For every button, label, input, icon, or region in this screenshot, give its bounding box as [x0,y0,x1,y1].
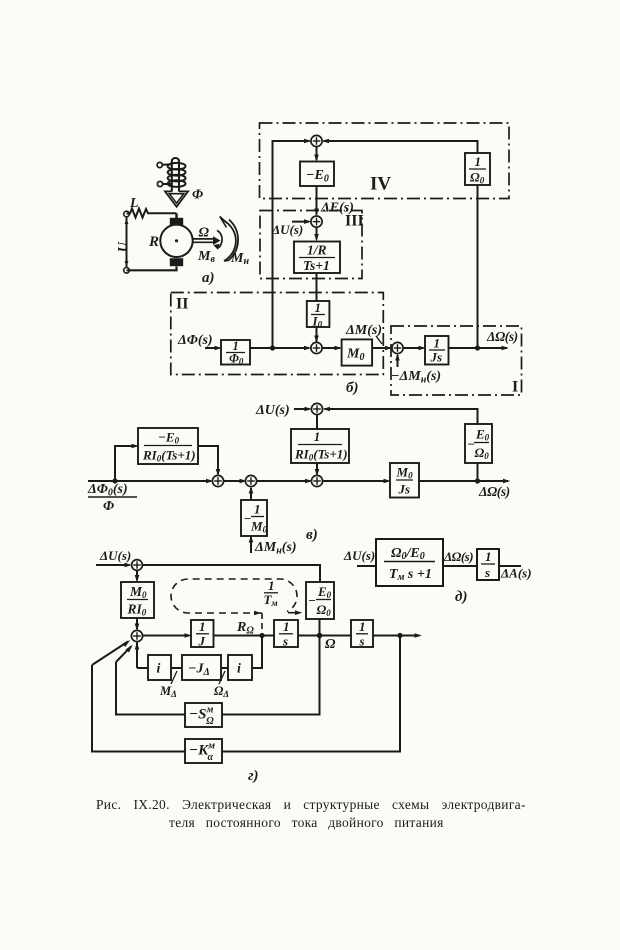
svg-text:ΔE(s): ΔE(s) [320,201,354,216]
svg-text:s: s [359,634,365,649]
summer V4 [311,403,322,414]
wire: 1/R down to block 1/I0 [316,273,318,301]
wire: G2 bottom chain down and to block i1 [137,667,148,669]
summer G2 [131,630,142,641]
block 1/J [191,619,214,649]
summer S4 (region IV) [311,135,322,146]
wire: G2 into block 1/J [143,635,190,637]
wire: V4 down into block 1/RI0(Ts+1) [316,415,318,429]
svg-text:в): в) [306,527,318,543]
wire: feedback riser x273 from region II up to region IV [273,141,310,348]
summer V3 [311,475,322,486]
wire: E0/Omega0 down to node Omega [319,619,321,636]
svg-text:ΔU(s): ΔU(s) [271,222,303,237]
block 1/s (d) [477,549,499,580]
svg-text:ΔA(s): ΔA(s) [500,566,532,581]
rotation direction arc [214,231,223,250]
wire: left voltage wire with U arrows [125,217,129,267]
wire: into block E [357,565,376,567]
block 1/Phi0 [221,339,250,367]
block -K_alpha^m [185,739,222,763]
svg-text:RI0(Ts+1): RI0(Ts+1) [294,447,348,463]
wire: dU(s) input into S3 [292,221,309,223]
svg-text:IV: IV [370,174,391,195]
block M0 [342,339,373,365]
svg-text:Рис. IX.20. Электрическая и ст: Рис. IX.20. Электрическая и структурные … [96,797,526,812]
svg-text:ΔΩ(s): ΔΩ(s) [486,329,518,344]
block 1/s g2 [351,619,373,649]
wire: dU(s) into summer V4 [294,408,310,410]
block 1/Omega0 [465,153,490,186]
block 1/RI0(Ts+1) [291,429,349,463]
inductor winding Lf (field coil) [157,158,185,192]
block E0/Omega0 (g) [306,582,334,619]
wire: bottom wire [127,267,177,271]
wire: V2 to summer V3 [257,480,310,482]
svg-text:RI0(Ts+1): RI0(Ts+1) [142,448,196,464]
block 1/I0 [307,300,330,330]
svg-text:1: 1 [268,578,275,593]
label Omega_delta with tick [214,671,229,699]
svg-text:i: i [237,662,241,677]
svg-text:Φ: Φ [192,188,203,203]
summer G1 [132,560,143,571]
dashed coupling loop 1/Tm [171,579,297,613]
svg-text:ΔMн(s): ΔMн(s) [254,540,297,557]
svg-text:ΔΩ(s): ΔΩ(s) [443,549,473,564]
node junction output to feedback [475,345,480,350]
wire: dashed drop to node R_Omega [261,613,263,633]
wire: feedback K down from node alpha [222,636,400,752]
svg-text:ΔU(s): ΔU(s) [343,548,375,563]
region I boundary (dash-dot box) [391,326,522,395]
svg-text:s: s [282,634,288,649]
svg-text:ΔΦ0(s): ΔΦ0(s) [87,482,128,499]
block -Jdelta [182,655,221,680]
armature inductance L (zigzag) [127,209,177,218]
load torque arrow Mn (hollow curved arrow) [220,217,238,262]
wire: -Jdelta to i2 [221,667,228,669]
wire: 1/Js to output dOmega(s) [449,347,508,349]
block i1 (gear ratio) [148,655,171,680]
wire: second 1/s to output arrow [373,635,420,637]
terminal bottom-left [124,268,130,274]
wire: G1 top line right and down to block E0/Omega0 [142,565,320,582]
summer S2 (region II) [311,342,322,353]
svg-text:Js: Js [398,482,411,497]
svg-text:1: 1 [434,336,441,351]
region II boundary (dash-dot box) [171,293,383,375]
svg-text:б): б) [346,380,358,396]
wire: S3 down into block 1/R [316,227,318,239]
svg-text:−ΔMн(s): −ΔMн(s) [391,369,441,386]
wire: branch up into block A [115,446,137,481]
svg-text:ΔU(s): ΔU(s) [255,403,290,418]
wire: i1 to -Jdelta [171,667,182,669]
block Omega0/E0 over Tm s+1 [376,539,443,586]
wire: 1/J to block 1/s first [214,635,275,637]
svg-text:1/R: 1/R [307,243,327,258]
block -E0/Omega0 (v) [465,424,492,463]
svg-text:1: 1 [283,619,290,634]
wire: main line into summer V1 [88,480,211,482]
node junction on II main line [270,345,275,350]
wire: S1 into block 1/Js [403,347,423,349]
flux arrow PHI (hollow arrow down) [165,191,188,206]
node junction Omega [317,633,323,639]
dc machine armature (circle) [160,225,192,257]
svg-text:II: II [176,296,188,313]
arrowhead on dashed loop bottom [254,611,261,616]
block -S_Omega^m [185,703,222,727]
wire: dPhi(s) arrow into block 1/Phi0 [205,347,220,349]
svg-text:Φ: Φ [103,499,114,514]
wire: top wire corner down to brush [175,213,177,219]
label M_delta with tick [159,671,177,699]
wire: -S out left and diagonal up into G2 [116,645,185,715]
wire: block F to output [499,565,521,567]
svg-text:s: s [484,565,490,580]
label 1/Tm fraction [264,578,279,608]
svg-text:Ts+1: Ts+1 [303,258,330,273]
diagram v): input fraction dPhi0(s)/Phi [87,482,137,514]
svg-text:L: L [129,196,139,211]
wire: G1 down into block M0/RI0 [136,570,138,580]
svg-text:1: 1 [254,502,261,517]
svg-text:Ω: Ω [199,226,210,241]
svg-text:1: 1 [199,619,206,634]
label dM(s) with tick [345,323,382,344]
block 1/s g1 [274,619,298,649]
svg-text:1: 1 [485,549,492,564]
svg-text:Js: Js [430,350,443,365]
armature center dot [175,239,178,242]
block -E0/RI0(Ts+1) [138,428,198,464]
svg-text:1: 1 [475,154,482,169]
svg-text:Ω0/E0: Ω0/E0 [391,546,425,562]
block 1/Js [425,336,449,365]
wire: V3 to block M0/Js [323,480,389,482]
node junction alpha [397,633,402,638]
wire: S4 down to block -E0 [316,147,318,160]
svg-text:ΔΩ(s): ΔΩ(s) [478,484,510,499]
wire: M0/RI0 down into summer G2 [136,618,138,629]
svg-text:1: 1 [359,619,366,634]
wire: feedback riser to 1/Omega0 [477,185,479,348]
summer S3 (region III) [311,216,322,227]
wire: V1 to summer V2 [224,480,244,482]
wire: S2 into block M0 [322,347,340,349]
svg-text:Ω: Ω [325,637,336,652]
brush top [170,218,183,226]
wire: block E to block F [443,565,477,567]
svg-text:1: 1 [314,429,321,444]
arrowhead into summer S4 left [304,139,311,144]
wire: block -1/M0 up into V2 [250,488,252,500]
wire: block down into V3 [316,463,318,474]
svg-text:i: i [157,662,161,677]
node junction (v) [475,478,480,483]
svg-text:д): д) [455,589,467,605]
svg-text:ΔU(s): ΔU(s) [99,548,131,563]
wire: -E0/Omega0 bottom to node [477,463,479,481]
wire: 1/Phi0 to summer S2 through node [250,347,309,349]
wire: -E0 down to summer S3, node dE(s) [316,186,318,215]
block -E0 [300,162,334,187]
brush bottom [170,258,183,266]
wire: i2 up to node R_Omega [252,636,262,669]
wire: M0/Js to output dOmega(s) v [419,480,508,482]
wire: block A out down into summer V1 [198,446,218,474]
wire: feedback from -E0/Omega0 top into V4 [325,409,478,424]
node branch junction [112,478,117,483]
svg-text:I: I [512,379,518,396]
region III boundary (dash-dot box) [260,211,362,279]
svg-text:г): г) [248,768,259,784]
wire: 1/s to second 1/s [298,635,351,637]
terminal top-left [124,211,130,217]
region IV boundary (dash-dot box) [260,123,510,199]
wire: 1/I0 down into summer S2 [316,327,318,342]
block i2 (gear ratio) [228,655,252,680]
block M0/RI0 [121,582,154,618]
block -1/M0 [241,500,268,536]
block M0/Js (v) [390,463,419,498]
wire: M0 out into summer S1 [372,347,390,349]
svg-text:ΔΦ(s): ΔΦ(s) [177,333,213,348]
svg-text:−: − [308,593,316,608]
wire: input into summer G1 [96,564,130,566]
summer V1 [212,475,223,486]
dashed loop exit arrow [288,610,302,615]
svg-text:а): а) [202,270,215,286]
block 1/R over Ts+1 [294,242,340,274]
svg-text:J: J [198,634,206,649]
summer V2 [245,475,256,486]
arrowhead into summer S4 right [322,139,329,144]
wire: load input -dMn(s) up into S1 [397,355,399,367]
svg-text:R: R [148,234,159,250]
wire: dMn(s) up into block -1/M0 [250,537,252,553]
svg-text:теля постоянного тока двойного: теля постоянного тока двойного питания [169,815,444,830]
svg-text:U: U [116,241,131,252]
wire: -K out left and diagonal up into G2 [92,640,185,752]
node junction R_Omega [259,633,264,638]
svg-text:Tм s +1: Tм s +1 [389,567,432,583]
wire: from 1/Omega0 top along y141 into summer S4 [324,141,478,153]
summer S1 (region I) [392,342,403,353]
shaft with omega arrow [193,236,221,245]
wire: feedback S down from node Omega [222,636,320,715]
